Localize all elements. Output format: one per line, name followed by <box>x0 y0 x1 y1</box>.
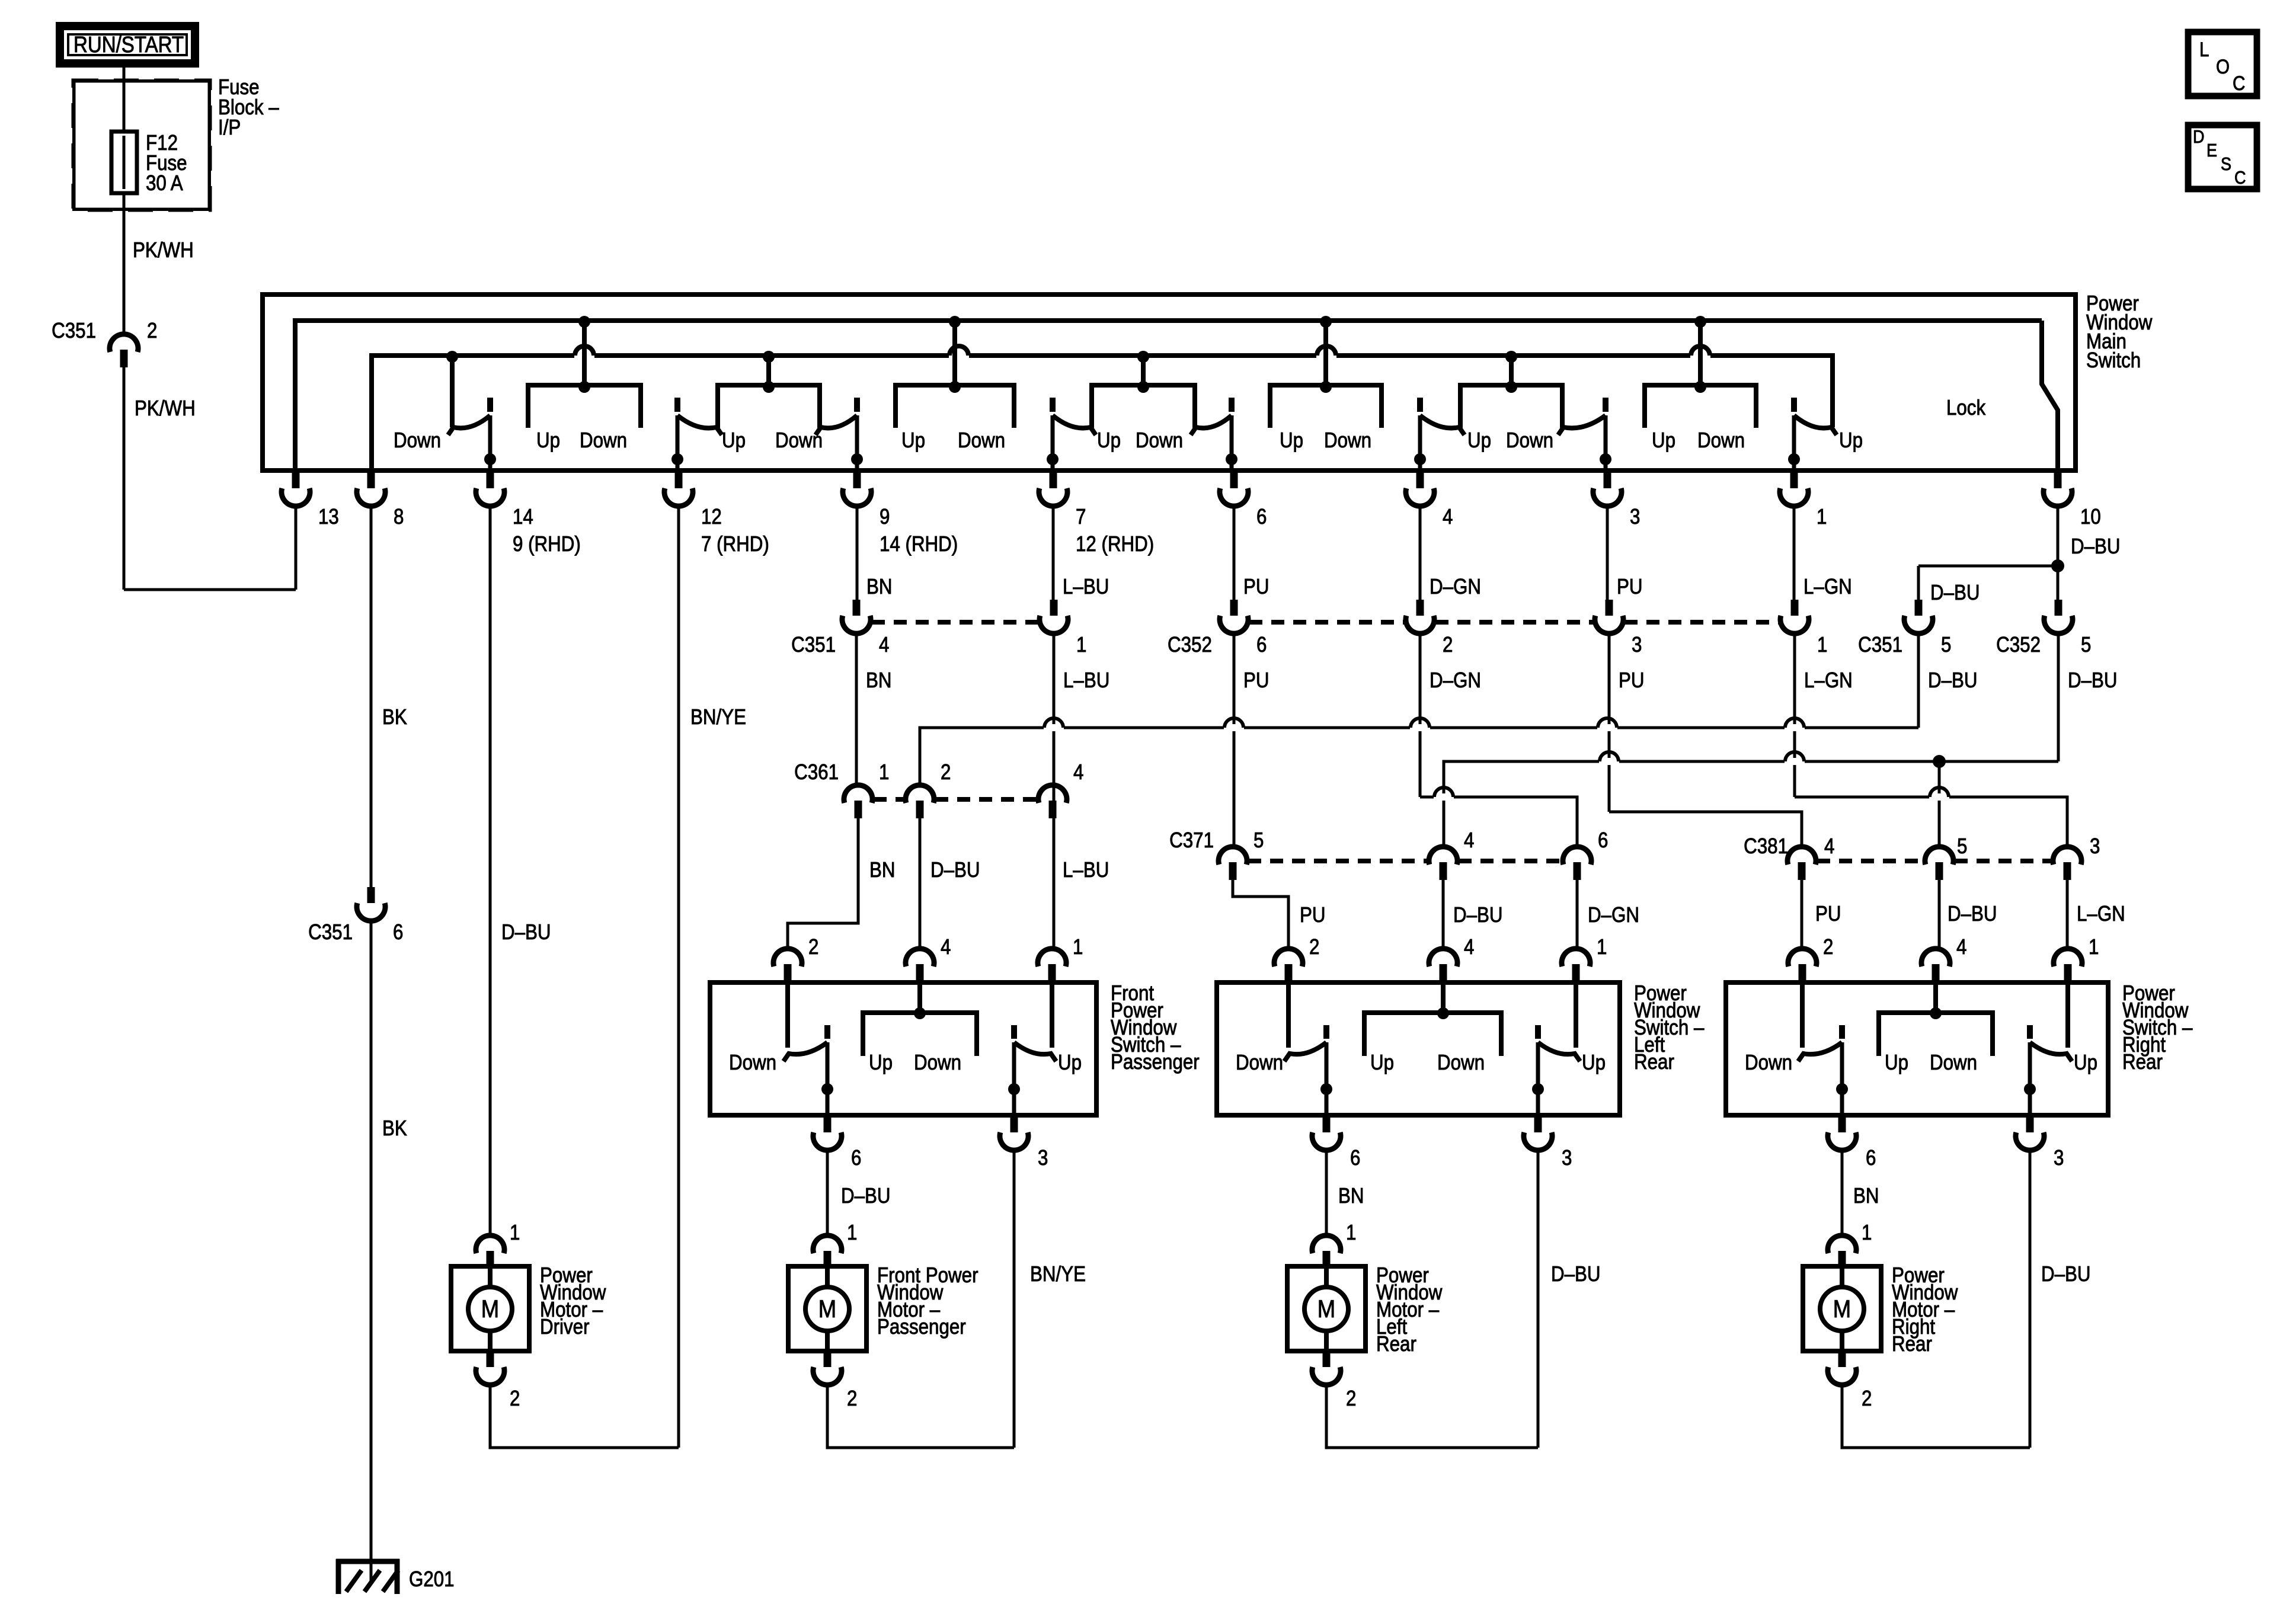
svg-text:C: C <box>2233 72 2245 95</box>
LOC reference box <box>2188 32 2257 96</box>
svg-text:Passenger: Passenger <box>877 1314 966 1339</box>
connector C351 pin 6 <box>357 887 385 921</box>
power window motor right rear pin 2 connector <box>1828 1351 1856 1385</box>
wire pin3 PU to C352-3 <box>1606 506 1609 600</box>
svg-text:C351: C351 <box>52 318 96 343</box>
wire up to main switch pin 13 <box>295 507 298 590</box>
rocker 7 <box>1645 316 1756 428</box>
connector C381-3 <box>2053 847 2081 880</box>
power window switch left rear rocker <box>1364 1013 1501 1056</box>
main switch pin 12 connector <box>664 472 693 506</box>
svg-text:Down: Down <box>1324 428 1371 452</box>
svg-text:Rear: Rear <box>1892 1331 1932 1356</box>
wire right rear pin6 BN to motor <box>1841 1148 1844 1235</box>
wire across to pin 13 <box>124 588 296 591</box>
svg-text:8: 8 <box>394 504 404 529</box>
power window motor driver pin 2 connector <box>476 1351 504 1385</box>
svg-text:BN: BN <box>866 668 892 692</box>
PU jog to C381-4 <box>1609 812 1802 847</box>
wire RUN/START to fuse F12 <box>123 63 126 132</box>
front power window switch passenger pin 1 <box>1038 949 1066 982</box>
svg-text:1: 1 <box>1817 504 1827 529</box>
svg-text:M: M <box>1833 1295 1851 1323</box>
main switch pin 8 connector <box>357 472 385 506</box>
svg-text:D–BU: D–BU <box>1453 902 1503 927</box>
power window switch left rear Down blade <box>1284 985 1332 1116</box>
svg-text:Up: Up <box>1370 1050 1394 1074</box>
svg-text:1: 1 <box>1073 934 1083 959</box>
svg-text:Down: Down <box>394 428 441 452</box>
switch blade -> pin 4 <box>1414 398 1464 470</box>
C361 harness dashed line <box>874 797 904 802</box>
svg-text:C351: C351 <box>1858 632 1902 657</box>
power window main switch box <box>263 295 2076 470</box>
power window switch right rear pin 6 <box>1828 1116 1856 1150</box>
svg-text:Up: Up <box>1885 1050 1908 1074</box>
svg-text:7 (RHD): 7 (RHD) <box>701 532 769 556</box>
connector C352-6 <box>1220 600 1248 633</box>
wire left rear pin3 D-BU loop <box>1537 1148 1540 1448</box>
svg-text:1: 1 <box>879 760 889 784</box>
svg-text:M: M <box>481 1295 499 1323</box>
power window motor right rear pin 1 connector <box>1828 1235 1856 1269</box>
svg-text:14 (RHD): 14 (RHD) <box>880 532 958 556</box>
power window motor left rear pin2 loop wire <box>1326 1384 1538 1448</box>
fuse F12 30A <box>111 132 137 193</box>
svg-text:L–BU: L–BU <box>1063 668 1109 692</box>
connector C352-3 <box>1595 600 1623 633</box>
svg-text:D–BU: D–BU <box>1948 901 1997 926</box>
power window switch left rear Up blade <box>1532 985 1580 1116</box>
svg-text:C381: C381 <box>1744 834 1788 858</box>
front power window switch passenger Up blade <box>1008 985 1056 1116</box>
svg-text:4: 4 <box>941 934 951 959</box>
svg-text:1: 1 <box>510 1220 520 1244</box>
svg-text:C351: C351 <box>791 632 836 657</box>
wire BN C351-4 to C361-1 <box>855 633 858 785</box>
junction rail2 to C381-5 <box>1933 755 1946 768</box>
front power window switch passenger pin 2 <box>773 949 802 982</box>
front power window switch passenger pin 4 <box>906 949 934 982</box>
svg-text:O: O <box>2216 56 2230 78</box>
wire BN C361-1 jog to passenger pin 2 <box>788 818 858 949</box>
svg-text:Passenger: Passenger <box>1111 1049 1200 1074</box>
svg-text:1: 1 <box>1346 1220 1356 1244</box>
svg-text:3: 3 <box>1562 1145 1572 1170</box>
svg-text:Down: Down <box>775 428 823 452</box>
svg-text:BN: BN <box>869 857 896 882</box>
svg-text:D–BU: D–BU <box>1551 1262 1601 1286</box>
svg-text:1: 1 <box>1862 1220 1872 1244</box>
wire right rear pin3 D-BU loop <box>2029 1148 2032 1448</box>
svg-text:Down: Down <box>914 1050 961 1074</box>
svg-text:3: 3 <box>1632 632 1642 657</box>
svg-text:L–GN: L–GN <box>1804 668 1853 692</box>
power window switch right rear Down blade <box>1798 985 1848 1116</box>
rocker 4 <box>1092 351 1195 428</box>
svg-text:Down: Down <box>1506 428 1553 452</box>
power window switch right rear rocker <box>1879 1013 1993 1056</box>
lock switch blade <box>2042 321 2058 470</box>
wire L-BU C351-1 to C361-4 and passenger pin 1 <box>1053 633 1056 949</box>
svg-text:2: 2 <box>1862 1386 1872 1410</box>
svg-text:3: 3 <box>2054 1145 2064 1170</box>
power window motor left rear pin 1 connector <box>1312 1235 1341 1269</box>
svg-text:M: M <box>818 1295 836 1323</box>
svg-text:Up: Up <box>722 428 746 452</box>
rail 2: D-BU from C352-5 to C371-4 / C381-5 <box>1444 761 2058 847</box>
power window switch right rear pin 2 <box>1788 949 1817 982</box>
svg-text:5: 5 <box>1253 828 1264 852</box>
svg-text:2: 2 <box>941 760 951 784</box>
svg-text:G201: G201 <box>409 1567 455 1591</box>
svg-text:12: 12 <box>701 504 722 529</box>
svg-text:D: D <box>2193 126 2205 147</box>
svg-text:Up: Up <box>2074 1050 2097 1074</box>
svg-text:Down: Down <box>1930 1050 1977 1074</box>
bus A internal rail <box>295 321 2042 470</box>
connector C381-4 <box>1787 847 1816 880</box>
svg-text:1: 1 <box>1076 632 1086 657</box>
svg-text:Driver: Driver <box>540 1314 590 1339</box>
wire PU C371-5 jog to left rear pin 2 <box>1233 880 1288 949</box>
wire D-BU C351-5 to rail1 <box>1917 633 1920 728</box>
wire pin9 BN to C351-4 <box>856 506 859 600</box>
switch blade Up -> pin 1 <box>1788 398 1837 470</box>
svg-text:6: 6 <box>851 1145 861 1170</box>
wire PU C352-6 to C371-5 <box>1233 633 1236 847</box>
svg-text:Rear: Rear <box>2122 1049 2163 1074</box>
svg-text:2: 2 <box>847 1386 857 1410</box>
svg-text:BN: BN <box>1338 1183 1364 1208</box>
C351 harness dashed line <box>872 620 1038 625</box>
wire pin4 D-GN to C352-2 <box>1419 506 1422 600</box>
svg-text:2: 2 <box>147 318 157 343</box>
svg-text:4: 4 <box>1956 934 1966 959</box>
svg-text:6: 6 <box>1256 632 1267 657</box>
svg-text:4: 4 <box>1073 760 1083 784</box>
svg-text:9: 9 <box>880 504 890 529</box>
svg-text:PK/WH: PK/WH <box>133 238 194 262</box>
wire pin6 PU to C352-6 <box>1233 506 1236 600</box>
switch blade -> pin 3 <box>1558 398 1611 470</box>
ground G201 <box>336 1559 399 1594</box>
svg-text:Down: Down <box>1136 428 1183 452</box>
svg-text:3: 3 <box>1038 1145 1048 1170</box>
connector C352-1 <box>1780 600 1809 633</box>
rocker 2 <box>718 351 820 428</box>
wire BK C351-6 to G201 <box>370 921 373 1559</box>
wire D-BU C352-5 to rail2 <box>2057 633 2060 761</box>
wire L-GN C381-3 to right rear pin 1 <box>2066 880 2069 949</box>
svg-text:6: 6 <box>1866 1145 1876 1170</box>
svg-text:RUN/START: RUN/START <box>73 33 184 57</box>
svg-text:2: 2 <box>510 1386 520 1410</box>
svg-text:S: S <box>2221 153 2231 174</box>
switch blade Down -> pin 14 <box>448 398 496 470</box>
svg-text:PU: PU <box>1300 902 1326 927</box>
svg-text:Up: Up <box>1058 1050 1082 1074</box>
svg-text:2: 2 <box>1823 934 1833 959</box>
wire pin7 L-BU to C351-1 <box>1052 506 1055 600</box>
svg-text:D–GN: D–GN <box>1588 902 1639 927</box>
main switch pin 4 connector <box>1406 472 1434 506</box>
power window switch right rear pin 3 <box>2016 1116 2044 1150</box>
svg-text:Rear: Rear <box>1634 1049 1674 1074</box>
svg-text:10: 10 <box>2080 504 2101 529</box>
connector C351-5 <box>1904 600 1933 633</box>
svg-text:Rear: Rear <box>1376 1331 1416 1356</box>
front power window motor passenger pin 2 connector <box>813 1351 842 1385</box>
svg-text:Up: Up <box>1839 428 1863 452</box>
bus B drop to Down blade pivot <box>450 356 455 427</box>
svg-text:Down: Down <box>1697 428 1745 452</box>
connector C371-4 <box>1429 847 1457 880</box>
power window motor driver pin2 loop wire <box>490 1384 679 1448</box>
wire D-BU C381-5 to right rear pin 4 <box>1938 880 1941 949</box>
rocker driver Up/Down <box>528 316 641 428</box>
svg-text:Down: Down <box>1236 1050 1283 1074</box>
wire D-GN C371-6 to left rear pin 1 <box>1576 880 1579 949</box>
svg-text:PU: PU <box>1243 668 1269 692</box>
svg-text:1: 1 <box>1597 934 1607 959</box>
front power window motor passenger pin 1 connector <box>813 1235 842 1269</box>
switch blade Up -> pin 12 <box>671 398 722 470</box>
svg-text:L–GN: L–GN <box>2077 901 2125 926</box>
wire C351-2 down <box>123 367 126 590</box>
svg-text:3: 3 <box>1630 504 1640 529</box>
svg-text:Lock: Lock <box>1946 395 1986 420</box>
C381 harness dashed line <box>1817 859 1924 863</box>
main switch pin 9 connector <box>843 472 871 506</box>
wire left rear pin6 BN to motor <box>1325 1148 1328 1235</box>
wire fuse to C351 pin 2, PK/WH <box>123 193 126 334</box>
power window switch left rear pin 6 <box>1312 1116 1341 1150</box>
L-GN jog to C381-3 <box>1795 797 2067 847</box>
svg-text:D–BU: D–BU <box>501 920 551 944</box>
svg-text:Up: Up <box>536 428 560 452</box>
svg-text:Down: Down <box>1437 1050 1485 1074</box>
svg-text:Up: Up <box>1280 428 1303 452</box>
wire pin1 L-GN to C352-1 <box>1793 506 1796 600</box>
svg-text:Switch: Switch <box>2086 348 2141 372</box>
svg-text:BN/YE: BN/YE <box>690 705 746 729</box>
svg-text:4: 4 <box>1824 834 1834 858</box>
svg-text:C361: C361 <box>794 760 839 784</box>
svg-text:D–BU: D–BU <box>1930 580 1980 604</box>
svg-text:L–GN: L–GN <box>1803 574 1852 598</box>
svg-text:C352: C352 <box>1168 632 1212 657</box>
svg-text:D–BU: D–BU <box>930 857 980 882</box>
svg-text:D–BU: D–BU <box>2068 668 2118 692</box>
svg-text:Up: Up <box>1097 428 1121 452</box>
svg-text:4: 4 <box>1464 934 1474 959</box>
rocker 6 <box>1460 351 1562 428</box>
svg-text:2: 2 <box>808 934 818 959</box>
wire PU C381-4 to right rear pin 2 <box>1801 880 1803 949</box>
svg-text:C371: C371 <box>1169 828 1214 852</box>
wire L-GN C352-1 down <box>1793 633 1796 797</box>
connector C351-1 <box>1040 600 1068 633</box>
C371 harness dashed line <box>1248 859 1428 863</box>
svg-text:PU: PU <box>1815 901 1841 926</box>
svg-text:Up: Up <box>1652 428 1675 452</box>
svg-text:4: 4 <box>1464 828 1474 852</box>
svg-text:Up: Up <box>1582 1050 1606 1074</box>
svg-text:Down: Down <box>729 1050 776 1074</box>
main switch pin 6 connector <box>1220 472 1248 506</box>
wire D-GN C352-2 down <box>1419 633 1422 797</box>
svg-text:4: 4 <box>879 632 889 657</box>
svg-text:12 (RHD): 12 (RHD) <box>1076 532 1154 556</box>
svg-text:D–BU: D–BU <box>841 1183 891 1208</box>
connector C351 pin 2 <box>110 334 138 367</box>
power window motor left rear pin 2 connector <box>1312 1351 1341 1385</box>
main switch pin 3 connector <box>1593 472 1622 506</box>
svg-text:D–BU: D–BU <box>1928 668 1978 692</box>
svg-text:1: 1 <box>1817 632 1827 657</box>
wire pin12 BN/YE down <box>677 506 680 1448</box>
svg-text:5: 5 <box>1957 834 1967 858</box>
power window switch right rear Up blade <box>2024 985 2072 1116</box>
svg-text:PK/WH: PK/WH <box>135 396 196 420</box>
main switch pin 7 connector <box>1039 472 1067 506</box>
junction pin10 branch <box>2051 559 2064 572</box>
svg-text:Down: Down <box>580 428 627 452</box>
branch D-BU to C351-5 <box>1918 565 2058 568</box>
connector C381-5 <box>1925 847 1953 880</box>
svg-text:5: 5 <box>2081 632 2091 657</box>
switch blade -> pin 7 <box>1047 398 1096 470</box>
fuse block I/P dashed box <box>73 81 210 210</box>
main switch pin 14 connector <box>476 472 504 506</box>
svg-text:2: 2 <box>1443 632 1453 657</box>
DESC reference box <box>2188 125 2257 189</box>
svg-text:6: 6 <box>1350 1145 1360 1170</box>
wire pin10 D-BU down <box>2057 506 2060 600</box>
svg-text:5: 5 <box>1941 632 1951 657</box>
wire D-BU C361-2 to passenger pin 4 <box>919 818 922 949</box>
svg-text:PU: PU <box>1617 574 1643 598</box>
rocker 3 <box>896 316 1014 428</box>
wire passenger pin6 D-BU to motor <box>826 1148 829 1235</box>
front power window switch passenger <box>710 982 1096 1115</box>
wire D-BU C371-4 to left rear pin 4 <box>1442 880 1445 949</box>
bus B internal rail <box>372 356 1833 470</box>
D-GN jog to C371-6 <box>1420 797 1577 847</box>
svg-text:7: 7 <box>1076 504 1086 529</box>
svg-text:C351: C351 <box>308 920 353 944</box>
svg-text:BN: BN <box>1853 1183 1879 1208</box>
power window switch left rear pin 2 <box>1274 949 1303 982</box>
svg-text:3: 3 <box>2090 834 2100 858</box>
svg-text:PU: PU <box>1619 668 1645 692</box>
wire pin8 BK down <box>370 506 373 887</box>
power window motor driver pin 1 connector <box>476 1235 504 1269</box>
svg-text:C352: C352 <box>1996 632 2041 657</box>
power window switch right rear pin 4 <box>1921 949 1950 982</box>
front power window switch passenger rocker <box>863 1013 977 1056</box>
main switch pin 1 connector <box>1780 472 1808 506</box>
power window motor right rear pin2 loop wire <box>1842 1384 2030 1448</box>
front power window switch passenger pin 3 <box>1000 1116 1028 1150</box>
svg-text:D–GN: D–GN <box>1430 668 1481 692</box>
svg-text:2: 2 <box>1309 934 1319 959</box>
svg-text:D–GN: D–GN <box>1430 574 1481 598</box>
svg-text:6: 6 <box>1256 504 1267 529</box>
svg-text:30 A: 30 A <box>146 171 183 195</box>
wire pin14 D-BU to driver motor <box>489 506 492 1235</box>
switch blade -> pin 9 <box>816 398 863 470</box>
front power window switch passenger pin 6 <box>813 1116 842 1150</box>
power window switch right rear <box>1726 982 2108 1115</box>
main switch pin 13 connector <box>282 472 310 506</box>
rocker 5 <box>1270 316 1382 428</box>
power window switch left rear pin 1 <box>1562 949 1590 982</box>
svg-text:D–BU: D–BU <box>2041 1262 2091 1286</box>
svg-text:BN: BN <box>866 574 893 598</box>
svg-text:M: M <box>1318 1295 1335 1323</box>
svg-text:2: 2 <box>1346 1386 1356 1410</box>
svg-text:1: 1 <box>847 1220 857 1244</box>
wire D-BU junction to C381-5 <box>1938 761 1941 847</box>
power window switch left rear <box>1217 982 1620 1115</box>
main switch pin 10 connector <box>2044 472 2072 506</box>
svg-text:PU: PU <box>1243 574 1269 598</box>
svg-text:Up: Up <box>869 1050 893 1074</box>
wire PU C352-3 down <box>1608 633 1611 812</box>
connector C361-4 <box>1038 785 1067 818</box>
power window switch left rear pin 4 <box>1429 949 1457 982</box>
front power window motor passenger pin2 loop wire <box>827 1384 1014 1448</box>
rail 1: D-BU from C351-5 to C361-2 <box>920 728 1918 785</box>
svg-text:6: 6 <box>393 920 403 944</box>
svg-text:E: E <box>2207 140 2217 161</box>
connector C352-5 <box>2044 600 2073 633</box>
svg-text:Up: Up <box>901 428 925 452</box>
svg-text:I/P: I/P <box>218 115 241 139</box>
svg-text:BN/YE: BN/YE <box>1030 1262 1086 1286</box>
connector C361-2 <box>906 785 934 818</box>
svg-text:D–BU: D–BU <box>2071 534 2121 558</box>
svg-text:13: 13 <box>318 504 339 529</box>
svg-text:Down: Down <box>1745 1050 1792 1074</box>
svg-text:6: 6 <box>1598 828 1608 852</box>
power window switch right rear pin 1 <box>2054 949 2082 982</box>
connector C371-6 <box>1563 847 1591 880</box>
power window switch left rear pin 3 <box>1524 1116 1552 1150</box>
connector C361-1 <box>844 785 872 818</box>
connector C351-4 <box>842 600 871 633</box>
svg-text:L: L <box>2199 39 2209 61</box>
svg-text:L–BU: L–BU <box>1063 574 1109 598</box>
svg-text:C: C <box>2234 167 2246 188</box>
svg-text:BK: BK <box>382 705 407 729</box>
C352 harness dashed line <box>1249 620 1405 625</box>
svg-text:Down: Down <box>958 428 1005 452</box>
connector C352-2 <box>1406 600 1434 633</box>
svg-text:4: 4 <box>1443 504 1453 529</box>
connector C371-5 <box>1219 847 1247 880</box>
RUN/START hot-at-all-times box <box>60 26 195 63</box>
svg-text:Up: Up <box>1467 428 1491 452</box>
switch blade -> pin 6 <box>1191 398 1237 470</box>
wire passenger pin3 BN/YE loop <box>1013 1148 1016 1448</box>
svg-text:L–BU: L–BU <box>1063 857 1109 882</box>
svg-text:BK: BK <box>382 1116 407 1140</box>
svg-text:14: 14 <box>513 504 533 529</box>
svg-text:1: 1 <box>2089 934 2099 959</box>
